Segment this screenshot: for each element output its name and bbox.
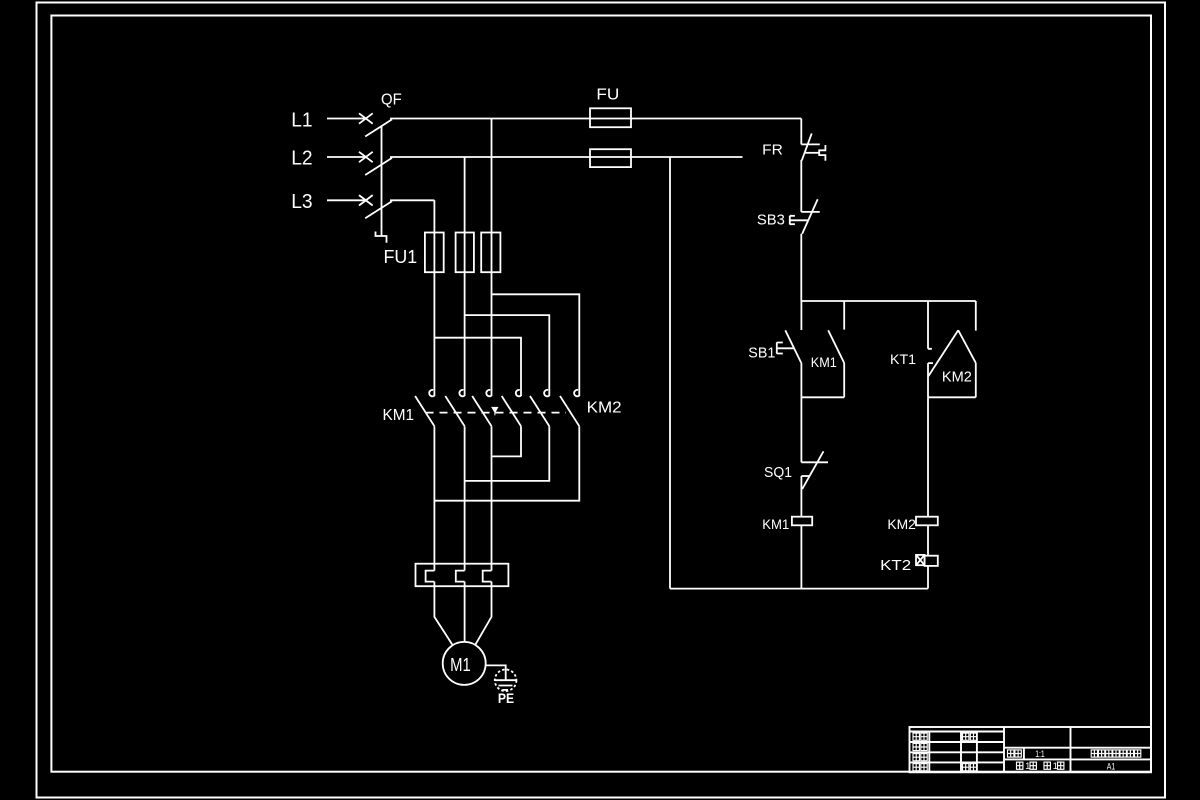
svg-text:KT1: KT1: [890, 351, 916, 367]
wire phase C vertical: [491, 119, 493, 397]
wire KM2 coil to KT2: [927, 525, 929, 555]
stop button SB3: [757, 199, 820, 234]
wire L2 lead-in: [327, 156, 365, 158]
wire KT1 branch down: [927, 397, 929, 516]
svg-text:KM1: KM1: [383, 407, 415, 424]
wire KM1 pole outputs down: [434, 426, 491, 570]
svg-text:L2: L2: [291, 148, 312, 170]
wire L1 lead-in: [327, 118, 365, 120]
contactor KM1 main contacts: [383, 390, 492, 426]
wire KT2 to bus: [927, 566, 929, 589]
wire L3 phase segment: [390, 199, 434, 201]
svg-text:KM2: KM2: [942, 370, 972, 386]
svg-text:FR: FR: [762, 141, 783, 158]
wire L3 lead-in: [327, 199, 365, 201]
svg-text:KM2: KM2: [887, 517, 916, 532]
fuse FU: [590, 87, 631, 167]
start button SB1: [748, 301, 801, 363]
svg-text:L3: L3: [291, 191, 312, 213]
wire KM2 pole3 output to phase A: [434, 426, 579, 501]
wire branch bus: [801, 300, 976, 302]
wire crossover B to KM2 pole2: [465, 315, 550, 396]
coil KT2: [880, 555, 938, 574]
svg-text:L1: L1: [291, 109, 312, 131]
wire KM1 coil to bus: [800, 525, 802, 588]
contact KM1 auxiliary: [811, 301, 844, 397]
svg-text:PE: PE: [498, 690, 514, 706]
node L2: [291, 148, 312, 170]
linkage marker: [492, 407, 498, 415]
wire SB3 to branch bus: [800, 234, 802, 301]
svg-text:QF: QF: [381, 92, 402, 109]
svg-text:SB1: SB1: [748, 345, 775, 362]
svg-text:FU1: FU1: [384, 247, 418, 267]
breaker cross L2: [359, 152, 373, 162]
title block: [910, 727, 1152, 772]
limit switch SQ1: [764, 451, 828, 489]
wire L1 phase bus: [390, 118, 801, 120]
wire KM2 pole2 output to phase B: [465, 426, 550, 481]
thermal relay FR heaters: [416, 564, 509, 587]
wire FR to SB3: [800, 160, 802, 212]
motor M1: [443, 642, 486, 685]
svg-text:1:1: 1:1: [1035, 749, 1045, 760]
wire SQ1 to KM1 coil: [800, 476, 802, 517]
svg-text:SB3: SB3: [757, 212, 785, 229]
wire to motor: [434, 582, 491, 646]
wire KT1/KM2 branch bottom: [928, 396, 976, 398]
coil KM1: [762, 517, 812, 532]
contact KT1: [890, 301, 958, 397]
wire crossover A to KM2 pole1: [434, 338, 521, 396]
breaker cross L1: [359, 113, 373, 123]
wire crossover C to KM2 pole3: [492, 294, 580, 396]
wire phase B vertical: [464, 157, 466, 396]
wire SB1 to SQ1: [800, 363, 802, 462]
ground PE: [486, 665, 517, 706]
wire control left rail: [669, 157, 671, 589]
thermal contact FR: [762, 133, 825, 160]
contact KM2 NC: [942, 301, 976, 397]
wire KM2 pole1 output to phase C: [492, 426, 522, 456]
node L3: [291, 191, 312, 213]
circuit breaker QF: [365, 92, 402, 243]
svg-text:SQ1: SQ1: [764, 465, 792, 481]
svg-text:A1: A1: [1107, 761, 1116, 772]
node L1: [291, 109, 312, 131]
wire control L1 drop: [800, 119, 802, 145]
mechanical linkage dashes: [426, 412, 567, 414]
wire phase A vertical: [433, 200, 435, 396]
breaker cross L3: [359, 195, 373, 205]
svg-text:FU: FU: [596, 87, 619, 104]
wire KM1 aux to main: [801, 396, 844, 398]
svg-text:KM1: KM1: [811, 355, 837, 370]
wire control bottom bus: [670, 588, 928, 590]
wire L2 phase bus: [390, 156, 743, 158]
fuse FU1: [384, 233, 501, 273]
svg-text:KT2: KT2: [880, 557, 911, 574]
coil KM2: [887, 517, 937, 532]
svg-text:M1: M1: [450, 655, 471, 675]
contactor KM2 main contacts: [502, 390, 622, 426]
svg-text:KM2: KM2: [587, 400, 622, 417]
svg-text:KM1: KM1: [762, 517, 789, 532]
